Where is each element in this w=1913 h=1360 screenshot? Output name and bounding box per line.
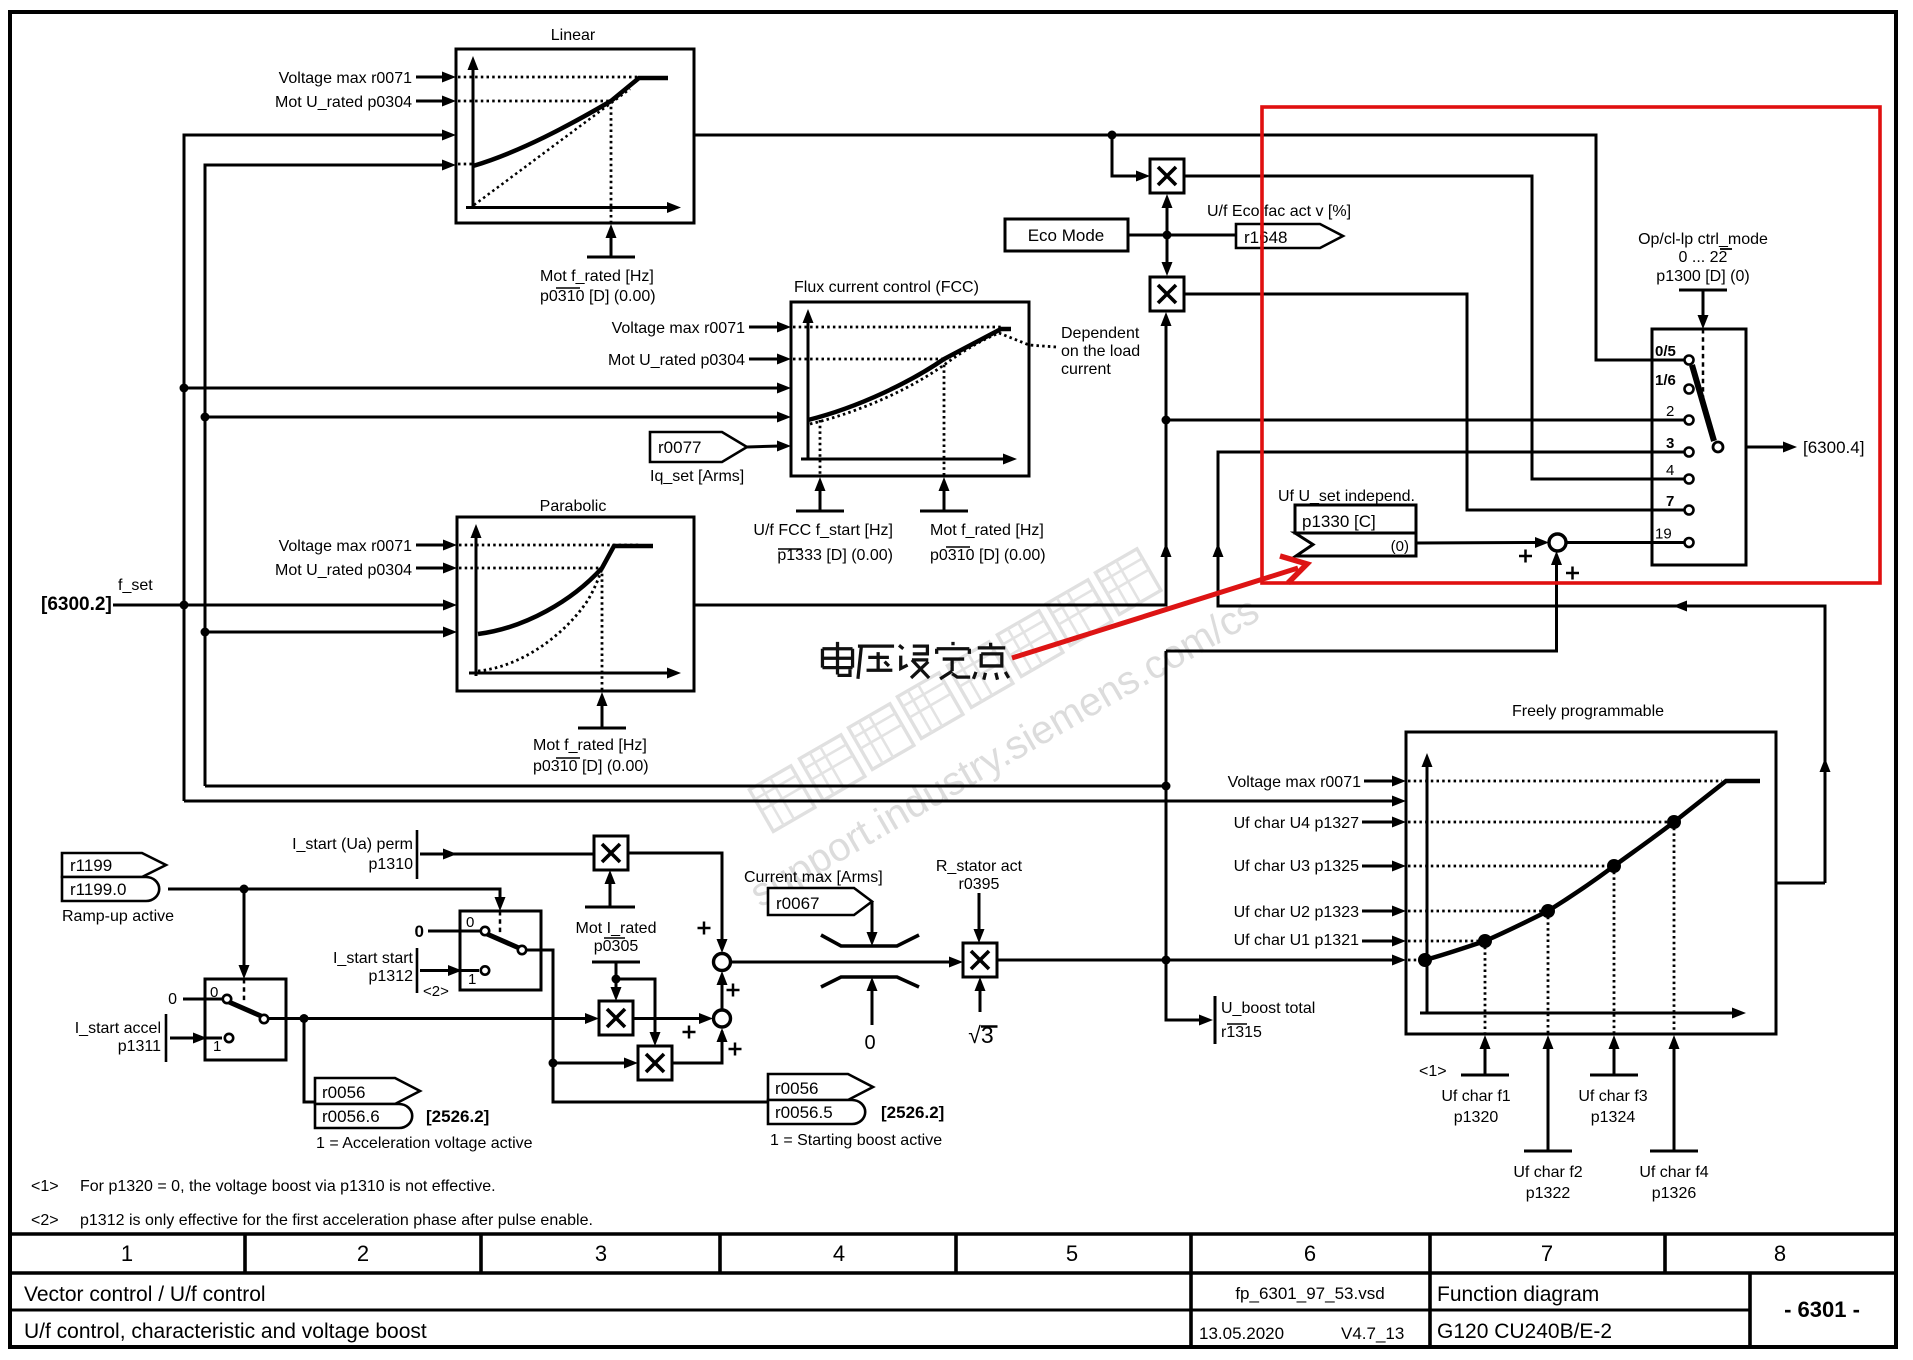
svg-text:[6300.4]: [6300.4] [1803,438,1864,457]
tag r0056.6 [315,1104,412,1128]
svg-text:p0305: p0305 [594,938,639,955]
svg-text:0 ... 22: 0 ... 22 [1679,249,1728,266]
svg-text:I_start accel: I_start accel [75,1020,161,1037]
svg-text:Mot f_rated [Hz]: Mot f_rated [Hz] [930,522,1044,539]
svg-text:1: 1 [468,971,476,988]
svg-text:p1330 [C]: p1330 [C] [1302,512,1376,531]
switch common contact and lever [1692,365,1714,441]
red annotation arrow [1012,568,1298,658]
svg-text:Uf char f2: Uf char f2 [1513,1164,1582,1181]
parameter Mot I_rated p0305 [585,906,635,909]
svg-text:p1324: p1324 [1591,1109,1636,1126]
svg-text:0: 0 [415,922,424,941]
wire X1 output to switch 4 [1184,176,1684,479]
svg-text:r0077: r0077 [658,438,701,457]
svg-text:r0056.6: r0056.6 [322,1107,380,1126]
title block table [10,1232,1896,1236]
svg-text:Voltage max r0071: Voltage max r0071 [279,70,413,87]
FCC f_start / f_rated params [815,477,826,491]
svg-text:Uf char f1: Uf char f1 [1441,1088,1510,1105]
multiplier X r0395 [963,943,997,977]
svg-text:U/f FCC f_start [Hz]: U/f FCC f_start [Hz] [753,522,893,539]
svg-text:Voltage max r0071: Voltage max r0071 [279,538,413,555]
svg-text:0: 0 [466,914,474,931]
red highlight rectangle [1262,107,1880,583]
switch p1311 accel boost [205,979,286,1060]
svg-text:[2526.2]: [2526.2] [426,1107,489,1126]
U_boost total r1315 [1214,996,1217,1044]
svg-text:r0056.5: r0056.5 [775,1103,833,1122]
r0077 Iq_set tag [650,432,747,462]
multiplier X p1310 [594,836,628,870]
multiplier X2 (Eco scaling) [1150,277,1184,311]
svg-text:Mot U_rated p0304: Mot U_rated p0304 [275,94,412,111]
wire p1330 to summing point [1416,541,1537,545]
svg-text:Dependent: Dependent [1061,325,1140,342]
wire feedback riser [1218,452,1825,883]
Mot f_rated below Linear [606,224,617,238]
Flux current control (FCC) box [791,302,1029,476]
wire rail B vertical [205,165,446,786]
wire rail A vertical [184,135,446,801]
wire Linear output to switch 0/5 [694,135,1684,360]
svg-text:5: 5 [1066,1241,1078,1266]
wire rail B to boost node [205,785,1166,788]
svg-text:Mot f_rated [Hz]: Mot f_rated [Hz] [533,737,647,754]
svg-text:3: 3 [595,1241,607,1266]
svg-text:r0056: r0056 [775,1079,818,1098]
svg-text:0/5: 0/5 [1655,343,1676,360]
svg-text:r1315: r1315 [1221,1024,1262,1041]
switch p1300 mode selector [1652,329,1746,565]
tag r0056.5 [768,1100,865,1124]
wire p1311 switch out [268,1017,587,1020]
tag r1199 [62,853,166,877]
svg-text:r1199.0: r1199.0 [70,880,126,899]
svg-text:19: 19 [1655,526,1672,543]
svg-text:Linear: Linear [551,27,596,44]
wire boost total to Freely box [997,959,1394,962]
svg-text:p1326: p1326 [1652,1185,1697,1202]
svg-text:r0056: r0056 [322,1083,365,1102]
svg-text:Uf char f4: Uf char f4 [1639,1164,1708,1181]
svg-text:1: 1 [213,1038,221,1055]
svg-text:current: current [1061,361,1111,378]
svg-text:Parabolic: Parabolic [540,498,607,515]
svg-text:<1>: <1> [1419,1063,1447,1080]
svg-text:Mot U_rated p0304: Mot U_rated p0304 [275,562,412,579]
Linear characteristic box [456,49,694,223]
svg-text:U/f control, characteristic an: U/f control, characteristic and voltage … [24,1320,427,1343]
svg-text:- 6301 -: - 6301 - [1784,1297,1860,1322]
summing point 2 [714,1010,731,1027]
svg-text:f_set: f_set [118,577,153,594]
switch p1312 start boost [460,911,541,990]
svg-text:Uf char U1 p1321: Uf char U1 p1321 [1234,932,1360,949]
svg-text:Uf char U3 p1325: Uf char U3 p1325 [1234,858,1360,875]
annotation text voltage setpoint (CJK strokes) [822,642,852,676]
svg-text:R_stator act: R_stator act [936,858,1023,875]
svg-text:p0310 [D] (0.00): p0310 [D] (0.00) [533,758,649,775]
wire Parabolic input 2 [205,631,446,634]
wire boost rail vertical [1166,651,1205,1020]
wire FCC input 1 [184,387,780,390]
wire FCC input 2 [205,416,780,419]
svg-text:1/6: 1/6 [1655,372,1676,389]
wire summing 2 to summing 1 [721,984,724,1010]
svg-text:r0067: r0067 [776,894,819,913]
svg-text:Eco Mode: Eco Mode [1028,226,1105,245]
wire rail A to Freely programmable [184,800,1394,803]
svg-text:r1648: r1648 [1244,228,1287,247]
Freely programmable box [1406,732,1776,1034]
svg-text:Op/cl-lp ctrl_mode: Op/cl-lp ctrl_mode [1638,231,1768,248]
svg-text:p0310 [D] (0.00): p0310 [D] (0.00) [540,288,656,305]
svg-text:Voltage max r0071: Voltage max r0071 [1228,774,1362,791]
svg-text:13.05.2020: 13.05.2020 [1199,1324,1284,1343]
wire f_set to Parabolic [113,604,446,607]
parameter p1330 [C] box [1295,505,1416,533]
wire to switch 2 [1166,419,1684,422]
svg-text:<1>: <1> [31,1178,59,1195]
svg-text:V4.7_13: V4.7_13 [1341,1324,1404,1343]
svg-text:7: 7 [1541,1241,1553,1266]
svg-text:Mot f_rated [Hz]: Mot f_rated [Hz] [540,268,654,285]
svg-text:U/f Eco fac act v [%]: U/f Eco fac act v [%] [1207,203,1351,220]
svg-text:p1312 is only effective for th: p1312 is only effective for the first ac… [80,1212,593,1229]
wire boost to summing point [1166,563,1557,651]
tag r0056 acceleration [315,1078,420,1104]
svg-text:6: 6 [1304,1241,1316,1266]
param overlines [556,287,580,289]
svg-text:3: 3 [1666,435,1674,452]
svg-text:Uf char f3: Uf char f3 [1578,1088,1647,1105]
svg-text:on the load: on the load [1061,343,1140,360]
svg-text:4: 4 [833,1241,845,1266]
svg-text:8: 8 [1774,1241,1786,1266]
svg-text:Uf char U4 p1327: Uf char U4 p1327 [1234,815,1360,832]
svg-text:[2526.2]: [2526.2] [881,1103,944,1122]
svg-text:Function diagram: Function diagram [1437,1283,1599,1306]
svg-text:p0310 [D] (0.00): p0310 [D] (0.00) [930,547,1046,564]
wire Eco Mode to multipliers [1128,234,1236,237]
Mot f_rated below Parabolic [597,692,608,706]
svg-text:7: 7 [1666,493,1674,510]
svg-text:Uf char U2 p1323: Uf char U2 p1323 [1234,904,1360,921]
svg-text:Mot U_rated p0304: Mot U_rated p0304 [608,352,745,369]
svg-text:2: 2 [1666,403,1674,420]
svg-text:1: 1 [121,1241,133,1266]
svg-text:Iq_set [Arms]: Iq_set [Arms] [650,468,744,485]
svg-text:2: 2 [357,1241,369,1266]
svg-text:Vector control / U/f control: Vector control / U/f control [24,1283,266,1306]
svg-text:fp_6301_97_53.vsd: fp_6301_97_53.vsd [1235,1284,1384,1303]
svg-text:p1322: p1322 [1526,1185,1571,1202]
wire r0067 into limiter [871,902,874,934]
svg-text:p1310: p1310 [369,856,414,873]
svg-text:U_boost total: U_boost total [1221,1000,1315,1017]
svg-text:0: 0 [168,991,177,1008]
wire X p1312 out to summing 2 [633,1017,701,1020]
wire ramp-up to switches [168,888,244,891]
svg-text:Flux current control (FCC): Flux current control (FCC) [794,279,979,296]
Freely output wire [1776,882,1825,885]
multiplier X p1312 [599,1001,633,1035]
Freely programmable curve [1425,781,1760,960]
svg-text:1 = Acceleration voltage activ: 1 = Acceleration voltage active [316,1135,533,1152]
svg-text:p1320: p1320 [1454,1109,1499,1126]
wire X2 output to switch 7 [1184,294,1684,510]
svg-text:I_start start: I_start start [333,950,414,967]
svg-text:r0395: r0395 [959,876,1000,893]
wire summing point to switch 19 [1566,541,1684,544]
svg-text:1 = Starting boost active: 1 = Starting boost active [770,1132,942,1149]
svg-text:Uf U_set independ.: Uf U_set independ. [1278,488,1415,505]
tag r0056 starting [768,1074,873,1100]
wire switch output to [6300.4] [1746,446,1786,449]
svg-text:<2>: <2> [423,983,449,1000]
watermark [749,549,1161,832]
multiplier X1 (Eco scaling) [1150,159,1184,193]
Parabolic characteristic box [457,517,694,691]
svg-text:Current max [Arms]: Current max [Arms] [744,869,883,886]
wire p1312 switch out [526,950,768,1102]
wire X p1310 output to summing [628,853,722,941]
svg-text:Mot I_rated: Mot I_rated [576,920,657,937]
wire Parabolic output riser [694,325,1166,605]
wire summing 1 to limiter/multiplier [731,961,952,964]
wire to status r0056.6 [304,1019,315,1103]
multiplier X p1311 [638,1046,672,1080]
svg-text:Freely programmable: Freely programmable [1512,703,1664,720]
Eco Mode box [1005,219,1128,251]
wire X p1311 out to summing 2 [672,1031,722,1063]
summing point 1 [714,954,731,971]
svg-text:I_start (Ua) perm: I_start (Ua) perm [292,836,413,853]
svg-text:p1300 [D] (0): p1300 [D] (0) [1656,268,1749,285]
svg-text:0: 0 [864,1032,875,1054]
summing point [1549,534,1566,551]
svg-text:p1311: p1311 [118,1038,161,1055]
svg-text:[6300.2]: [6300.2] [41,594,112,615]
wire to multiplier X1 [1112,135,1138,176]
svg-text:r1199: r1199 [70,856,112,875]
svg-text:p1312: p1312 [369,968,414,985]
wire p1310 to multiplier [420,853,595,856]
svg-text:Ramp-up active: Ramp-up active [62,908,174,925]
wire X p1311 input [553,1062,626,1065]
svg-text:(0): (0) [1391,538,1409,555]
tag r1199.0 [62,877,159,901]
limiter symbol [821,935,919,946]
svg-text:Voltage max r0071: Voltage max r0071 [612,320,746,337]
svg-text:<2>: <2> [31,1212,59,1229]
svg-text:4: 4 [1666,462,1674,479]
svg-text:G120 CU240B/E-2: G120 CU240B/E-2 [1437,1320,1612,1343]
svg-text:For p1320 = 0, the voltage boo: For p1320 = 0, the voltage boost via p13… [80,1178,496,1195]
